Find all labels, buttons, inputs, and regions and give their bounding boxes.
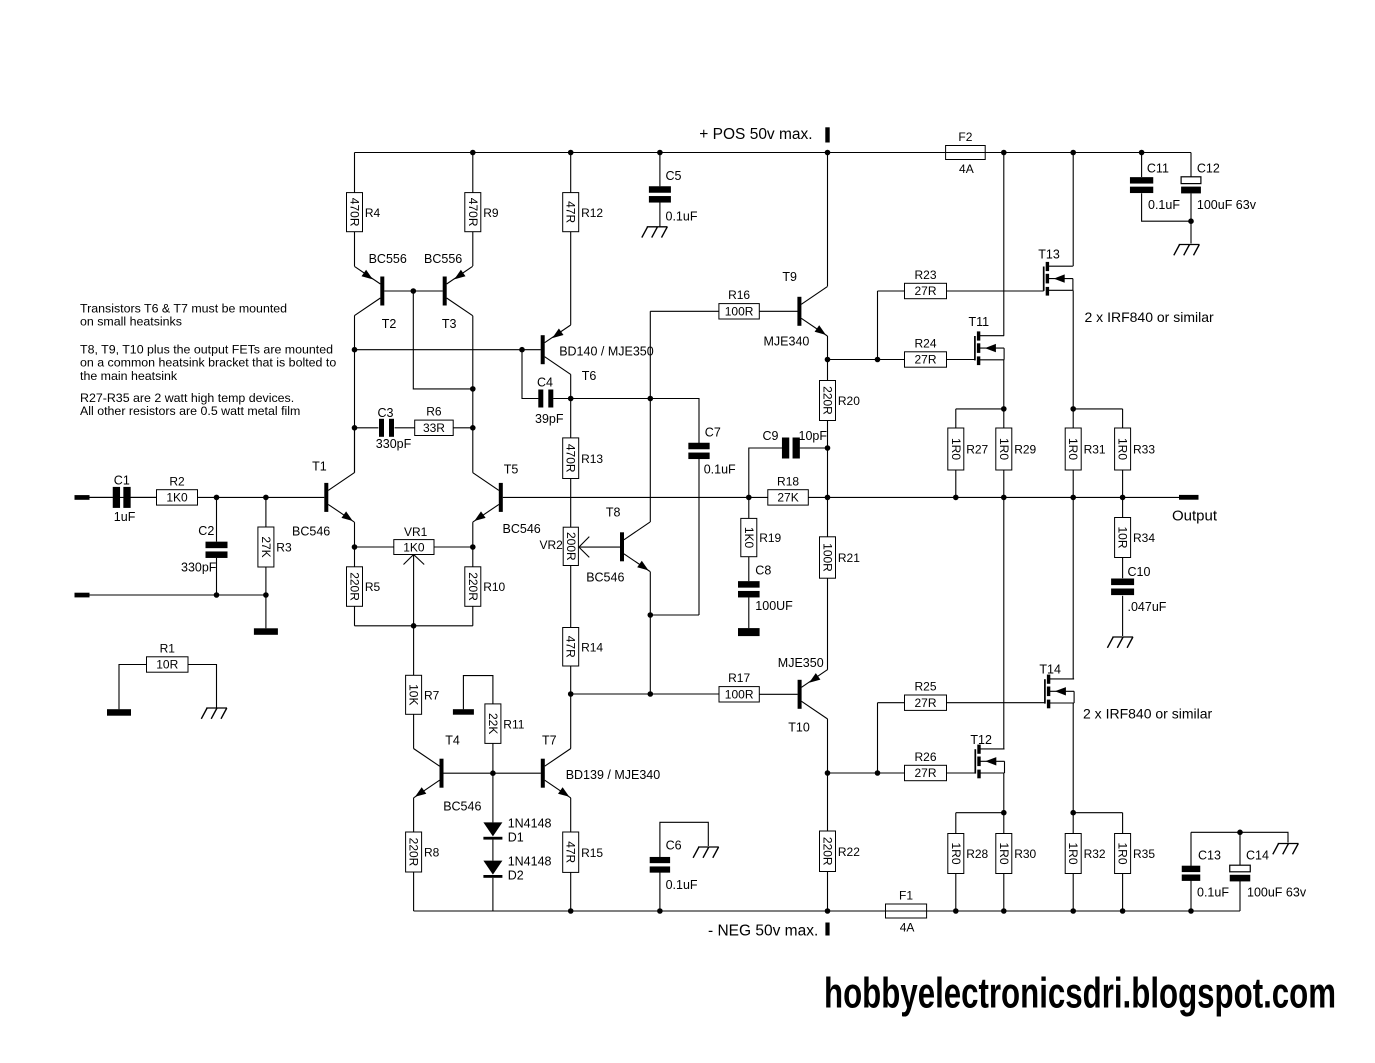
wire C11 top lead — [1141, 153, 1143, 178]
label T13 label — [1038, 247, 1060, 261]
svg-text:T14: T14 — [1039, 663, 1061, 677]
wire T11 source lead — [1003, 360, 1005, 409]
svg-text:C3: C3 — [378, 406, 394, 420]
wire T13 source lead — [1072, 290, 1074, 409]
junction R27-main — [953, 495, 959, 501]
wire C2 top lead — [216, 497, 218, 541]
resistor R1 10R — [147, 641, 189, 672]
wire R4 bottom lead / T2 emitter — [354, 232, 356, 266]
wire R23 right lead / T13 gate — [947, 290, 1044, 292]
wire T13 drain lead — [1072, 153, 1074, 267]
label T9 label — [782, 270, 797, 284]
svg-text:+ POS 50v max.: + POS 50v max. — [699, 126, 812, 143]
junction C4 node-R16 — [648, 396, 654, 402]
svg-text:R25: R25 — [914, 680, 936, 694]
junction input-R3 — [263, 495, 269, 501]
wire D2 bottom lead — [492, 878, 494, 911]
wire T9 emitter lead — [827, 336, 829, 360]
svg-text:1uF: 1uF — [114, 510, 136, 524]
wire R12 top lead — [570, 153, 572, 193]
wire R5 top lead — [354, 547, 356, 567]
junction T8 emitter row — [648, 691, 654, 697]
svg-text:R31: R31 — [1084, 443, 1106, 457]
label C10 value — [1128, 600, 1167, 614]
wire T10 collector lead — [827, 719, 829, 773]
svg-text:22K: 22K — [486, 713, 500, 734]
label T6 label — [582, 369, 597, 383]
svg-text:27K: 27K — [777, 491, 798, 505]
wire VR1 right lead — [434, 546, 473, 548]
resistor R21 100R — [820, 537, 861, 578]
resistor R9 470R — [465, 193, 499, 232]
label T3 label — [442, 317, 457, 331]
-NEG terminal tick — [825, 923, 829, 936]
svg-text:220R: 220R — [466, 572, 480, 601]
wire R35 bottom lead — [1122, 874, 1124, 912]
wire C3 left lead — [355, 427, 379, 429]
wire R7 top lead — [413, 626, 415, 676]
junction R23-R24 link — [875, 357, 881, 363]
svg-text:R16: R16 — [728, 288, 750, 302]
svg-text:0.1uF: 0.1uF — [666, 209, 698, 223]
label C8 value — [755, 599, 793, 613]
mosfet T11 (IRF840) — [975, 331, 1004, 365]
resistor R19 1K0 — [741, 518, 782, 556]
svg-text:BD139 / MJE340: BD139 / MJE340 — [566, 768, 661, 782]
ground (chassis) C6 chassis ground — [693, 847, 719, 858]
resistor R24 27R — [905, 336, 947, 367]
ground (chassis) R1 chassis ground — [201, 708, 227, 719]
resistor R33 1R0 — [1115, 428, 1156, 470]
svg-text:2 x IRF840 or similar: 2 x IRF840 or similar — [1085, 309, 1214, 325]
label T7 part — [566, 768, 661, 782]
svg-text:0.1uF: 0.1uF — [1197, 886, 1229, 900]
svg-text:R17: R17 — [728, 671, 750, 685]
wire R10 bottom lead — [472, 606, 474, 626]
wire D1 top lead — [492, 773, 494, 822]
ground (chassis) C10 chassis ground — [1107, 637, 1133, 648]
svg-text:R24: R24 — [914, 336, 936, 350]
wire C1 left lead — [90, 496, 113, 498]
svg-text:T8, T9, T10 plus the output FE: T8, T9, T10 plus the output FETs are mou… — [80, 342, 333, 356]
svg-text:T10: T10 — [788, 721, 810, 735]
svg-text:D1: D1 — [508, 831, 524, 845]
wire R5 bottom lead — [354, 606, 356, 626]
junction C11-C12 — [1188, 218, 1194, 224]
wire R20 top lead — [827, 360, 829, 381]
svg-text:BC546: BC546 — [443, 800, 481, 814]
svg-text:R29: R29 — [1014, 443, 1036, 457]
capacitor C14 (electrolytic) — [1230, 865, 1251, 881]
svg-text:T11: T11 — [969, 315, 990, 329]
junction T5 emitter-VR1 — [470, 544, 476, 550]
wire D1-D2 link — [492, 840, 494, 861]
svg-text:R10: R10 — [483, 580, 505, 594]
ground C8 ground — [738, 628, 760, 636]
wire R28 top lead — [955, 813, 957, 834]
capacitor C5 — [649, 186, 671, 202]
ground (chassis) C5 chassis ground — [642, 227, 668, 238]
label C8 label — [755, 563, 771, 577]
label website — [824, 970, 1336, 1018]
ground R11 ground — [453, 709, 474, 715]
junction C6-NEG — [657, 908, 663, 914]
wire R4 top lead — [354, 153, 356, 193]
wire R34 top lead — [1122, 497, 1124, 517]
svg-text:T2: T2 — [382, 317, 397, 331]
wire T7 emitter lead — [570, 798, 572, 832]
svg-text:R6: R6 — [426, 405, 442, 419]
junction C3 right — [470, 425, 476, 431]
label T1 label — [312, 460, 327, 474]
wire R19 to C8 — [748, 557, 750, 582]
svg-text:27R: 27R — [914, 696, 936, 710]
svg-text:C6: C6 — [666, 839, 682, 853]
wire T6 collector lead — [570, 374, 572, 398]
svg-text:R12: R12 — [581, 206, 603, 220]
svg-text:10R: 10R — [1116, 526, 1130, 548]
svg-text:R3: R3 — [276, 541, 292, 555]
wire R25 left lead — [878, 702, 905, 704]
label T5 label — [504, 462, 519, 476]
label D1 part — [508, 817, 552, 831]
label C11 label — [1147, 162, 1169, 176]
resistor R3 27K — [258, 527, 292, 567]
resistor R18 27K — [768, 474, 809, 505]
wire T7 collector lead — [570, 694, 572, 749]
label T9 part — [764, 334, 810, 348]
svg-text:470R: 470R — [466, 198, 480, 227]
svg-text:F2: F2 — [958, 130, 972, 144]
svg-text:C14: C14 — [1246, 849, 1269, 863]
wire T2-T3 base line — [384, 290, 443, 292]
label C2 label — [198, 524, 214, 538]
svg-text:C8: C8 — [755, 563, 771, 577]
junction R20-C9 — [825, 445, 831, 451]
ground R1 ground — [107, 709, 131, 716]
wire R35 top lead — [1122, 813, 1124, 834]
wire R13 to VR2 — [570, 479, 572, 528]
junction T14 source — [1070, 810, 1076, 816]
label C10 label — [1128, 565, 1151, 579]
wire R1 left lead — [119, 665, 147, 710]
wire R8 bottom lead — [413, 872, 415, 911]
svg-text:BC556: BC556 — [369, 252, 407, 266]
svg-text:470R: 470R — [348, 198, 362, 227]
label note line 2 — [80, 314, 182, 328]
svg-text:4A: 4A — [959, 162, 974, 176]
label C1 label — [114, 473, 130, 487]
wire T10 collector row — [828, 772, 878, 774]
label T12 label — [970, 733, 992, 747]
svg-text:R34: R34 — [1133, 531, 1155, 545]
junction C13-NEG — [1188, 908, 1194, 914]
svg-text:C13: C13 — [1198, 849, 1221, 863]
svg-text:VR2: VR2 — [540, 538, 564, 552]
svg-text:0.1uF: 0.1uF — [666, 878, 698, 892]
svg-text:C4: C4 — [537, 375, 553, 389]
wire T4 emitter lead — [413, 798, 415, 832]
label C13 label — [1198, 849, 1221, 863]
resistor R5 220R — [347, 567, 381, 607]
junction T4T7 base — [490, 770, 496, 776]
wire R1 right lead — [188, 665, 217, 708]
wire R13 top lead — [570, 399, 572, 438]
label C1 value — [114, 510, 136, 524]
junction C4 branch — [519, 347, 525, 353]
fuse F1 4A — [886, 889, 927, 935]
wire R31 top lead — [1072, 409, 1074, 428]
svg-text:220R: 220R — [821, 837, 835, 866]
wire R28 bottom lead — [955, 874, 957, 912]
wire T10 emitter lead — [827, 578, 829, 669]
svg-text:33R: 33R — [423, 421, 445, 435]
wire R33 top lead — [1122, 409, 1124, 428]
svg-text:on small heatsinks: on small heatsinks — [80, 314, 182, 328]
svg-text:200R: 200R — [564, 532, 578, 561]
svg-text:R13: R13 — [581, 452, 603, 466]
wire R3 bottom lead — [265, 567, 267, 628]
wire R16 left lead — [650, 310, 719, 312]
wire R19 top lead — [748, 497, 750, 518]
wire T3 collector lead — [472, 316, 474, 473]
label IRF840 note top — [1085, 309, 1214, 325]
label T6 part — [559, 344, 654, 358]
svg-text:R32: R32 — [1084, 847, 1106, 861]
wire C8 bottom lead — [748, 597, 750, 628]
svg-text:1R0: 1R0 — [949, 438, 963, 460]
wire T9 emitter row — [828, 359, 878, 361]
svg-text:C11: C11 — [1147, 162, 1169, 176]
svg-text:C5: C5 — [666, 169, 682, 183]
svg-text:10K: 10K — [407, 684, 421, 705]
wire C7 bottom lead — [698, 458, 700, 615]
svg-text:the main heatsink: the main heatsink — [80, 369, 178, 383]
resistor R27 1R0 — [948, 428, 989, 470]
wire R12 bottom lead / T6 emitter — [570, 232, 572, 325]
resistor R14 47R — [563, 628, 604, 667]
wire R33 bottom lead — [1122, 470, 1124, 497]
wire T12 drain lead — [1003, 497, 1005, 749]
resistor R13 470R — [563, 438, 604, 479]
junction C2-return — [214, 592, 220, 598]
wire C9 left lead — [749, 448, 782, 497]
wire R15 bottom lead — [570, 872, 572, 911]
wire T14 source node row — [1073, 812, 1122, 814]
resistor R15 47R — [563, 832, 604, 872]
svg-text:R33: R33 — [1133, 443, 1155, 457]
svg-text:100uF 63v: 100uF 63v — [1247, 886, 1307, 900]
label T7 label — [542, 734, 557, 748]
label C6 value — [666, 878, 698, 892]
svg-text:BC556: BC556 — [424, 252, 462, 266]
label T4 part — [443, 800, 481, 814]
wire R5-R10 bottom rail — [355, 625, 473, 627]
svg-text:R19: R19 — [759, 531, 781, 545]
fuse F2 4A — [946, 130, 986, 176]
svg-text:Output: Output — [1172, 508, 1218, 525]
wire row to R17 — [650, 693, 719, 695]
svg-text:R27-R35 are 2 watt high temp d: R27-R35 are 2 watt high temp devices. — [80, 391, 294, 405]
wire T5 emitter lead — [472, 522, 474, 547]
label T2 part — [369, 252, 407, 266]
svg-text:1K0: 1K0 — [166, 491, 188, 505]
resistor R11 22K — [485, 704, 525, 744]
junction T13 source — [1070, 406, 1076, 412]
svg-text:C2: C2 — [198, 524, 214, 538]
wire C13-C14 top row — [1191, 832, 1288, 842]
svg-text:1R0: 1R0 — [1116, 842, 1130, 864]
svg-text:T8: T8 — [606, 506, 621, 520]
wire T14 drain lead — [1072, 497, 1074, 679]
label D2 part — [508, 855, 552, 869]
wire C6 top lead — [660, 822, 708, 857]
junction R33-main — [1120, 495, 1126, 501]
svg-text:1N4148: 1N4148 — [508, 855, 552, 869]
input terminal (return) — [75, 593, 90, 598]
capacitor C1 — [113, 487, 131, 508]
wire T8 collector lead — [649, 311, 651, 522]
label T14 label — [1039, 663, 1061, 677]
wire T2 collector lead — [354, 316, 356, 473]
label T5 part — [503, 522, 541, 536]
svg-text:27R: 27R — [914, 766, 936, 780]
resistor R34 10R — [1115, 518, 1156, 558]
svg-text:100R: 100R — [821, 543, 835, 572]
svg-text:VR1: VR1 — [404, 525, 428, 539]
wire T8 emitter lead — [649, 572, 651, 695]
ground (chassis) C11-C12 chassis ground — [1174, 245, 1200, 256]
wire C6 bottom lead — [659, 872, 661, 911]
wire R6 right lead — [453, 427, 473, 429]
junction input-C2 — [214, 495, 220, 501]
label +POS label — [699, 126, 812, 143]
svg-text:1R0: 1R0 — [1066, 438, 1080, 460]
wire R24 left lead — [878, 359, 905, 361]
wire R17 right lead / T10 base — [759, 693, 797, 695]
svg-text:R18: R18 — [777, 474, 799, 488]
junction T3 collector-base — [470, 386, 476, 392]
wire R3 top lead — [265, 497, 267, 527]
wire R32 top lead — [1072, 813, 1074, 834]
capacitor C12 (electrolytic) — [1181, 177, 1201, 194]
svg-text:T12: T12 — [970, 733, 992, 747]
svg-text:27K: 27K — [259, 536, 273, 557]
label T10 part — [778, 656, 824, 670]
label C12 value — [1197, 198, 1257, 212]
resistor R22 220R — [820, 831, 861, 872]
wire T4-T7 base line — [443, 772, 541, 774]
svg-text:- NEG 50v max.: - NEG 50v max. — [708, 922, 818, 939]
wire C12 bottom lead — [1190, 193, 1192, 243]
wire T13 source node row — [1073, 408, 1122, 410]
label note line 3 — [80, 342, 333, 356]
junction R14-T7 — [568, 691, 574, 697]
label C12 label — [1197, 162, 1220, 176]
wire R31 bottom lead — [1072, 470, 1074, 497]
diode D2 (1N4148) — [483, 861, 502, 878]
input terminal (signal) — [75, 495, 90, 500]
label T3 part — [424, 252, 462, 266]
svg-text:R35: R35 — [1133, 847, 1155, 861]
wire main signal line left — [90, 496, 325, 498]
resistor R2 1K0 — [157, 474, 198, 505]
wire C10 bottom lead — [1122, 596, 1124, 636]
wire lower input line — [90, 594, 266, 596]
junction R15-NEG — [568, 908, 574, 914]
svg-text:1K0: 1K0 — [403, 540, 425, 554]
capacitor C13 — [1182, 866, 1201, 881]
label C9 label — [763, 429, 779, 443]
wire main signal line right — [503, 496, 1179, 498]
output terminal — [1179, 495, 1199, 500]
svg-text:1R0: 1R0 — [1116, 438, 1130, 460]
label note line 4 — [80, 356, 336, 370]
wire C13 top lead — [1190, 832, 1192, 866]
wire R27 top lead — [955, 409, 957, 428]
wire C9 right lead — [800, 447, 828, 449]
svg-text:R26: R26 — [914, 750, 936, 764]
junction R35-NEG — [1120, 908, 1126, 914]
resistor R6 33R — [415, 405, 454, 436]
svg-text:R7: R7 — [424, 688, 440, 702]
svg-text:100UF: 100UF — [755, 599, 793, 613]
label note line 5 — [80, 369, 178, 383]
transistor T1 (BC546) — [324, 473, 354, 522]
junction C13-C14 top — [1237, 830, 1243, 836]
junction T10 collector — [825, 770, 831, 776]
svg-text:220R: 220R — [348, 572, 362, 601]
svg-text:F1: F1 — [899, 889, 913, 903]
svg-text:T13: T13 — [1038, 247, 1060, 261]
resistor R32 1R0 — [1065, 834, 1106, 874]
svg-text:27R: 27R — [914, 284, 936, 298]
svg-text:C7: C7 — [705, 426, 721, 440]
wire base-to-T3-collector link — [413, 291, 473, 389]
transistor T3 (BC556) — [443, 266, 473, 315]
label C5 label — [666, 169, 682, 183]
label Output label — [1172, 508, 1218, 525]
svg-text:100R: 100R — [725, 688, 754, 702]
wire R11 top lead — [463, 676, 493, 710]
resistor R20 220R — [820, 381, 861, 421]
wire R30 bottom lead — [1003, 874, 1005, 912]
transistor T7 (BD139) — [541, 749, 571, 798]
+POS terminal tick — [825, 127, 829, 142]
wire R16 right lead / T9 base — [759, 310, 797, 312]
wire R24 right lead / T11 gate — [947, 359, 975, 361]
svg-text:on a common heatsink bracket t: on a common heatsink bracket that is bol… — [80, 356, 336, 370]
wire T1 emitter lead — [354, 522, 356, 547]
wire R14 bottom lead — [570, 666, 572, 694]
svg-text:T9: T9 — [782, 270, 797, 284]
wire R25 right lead / T14 gate — [947, 702, 1045, 704]
junction R32-NEG — [1070, 908, 1076, 914]
junction POS-C5 — [657, 150, 663, 156]
svg-text:R4: R4 — [365, 206, 381, 220]
wire T11 drain lead — [1003, 153, 1005, 336]
label C11 value — [1148, 198, 1180, 212]
svg-text:R8: R8 — [424, 846, 440, 860]
resistor R12 47R — [563, 193, 604, 232]
label note line 6 — [80, 391, 294, 405]
label IRF840 note bottom — [1083, 706, 1212, 722]
svg-text:1R0: 1R0 — [997, 438, 1011, 460]
wire R26 left lead — [878, 772, 905, 774]
mosfet T12 (IRF840) — [975, 745, 1004, 779]
capacitor C4 — [538, 390, 553, 408]
wire R9 top lead — [472, 153, 474, 193]
